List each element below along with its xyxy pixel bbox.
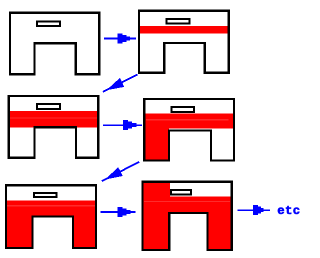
svg-text:etc: etc — [277, 204, 300, 218]
